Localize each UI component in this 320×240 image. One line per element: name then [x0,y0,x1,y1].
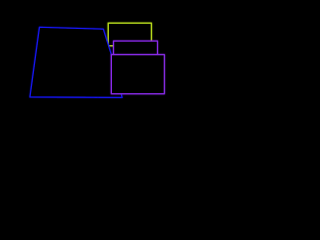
middle purple rectangle (window) [114,41,158,55]
blue quadrilateral (window, drawn over yellow) [30,27,122,97]
yellow rectangle (window, back layer) [108,23,151,46]
large purple rectangle (front window) [111,55,164,94]
